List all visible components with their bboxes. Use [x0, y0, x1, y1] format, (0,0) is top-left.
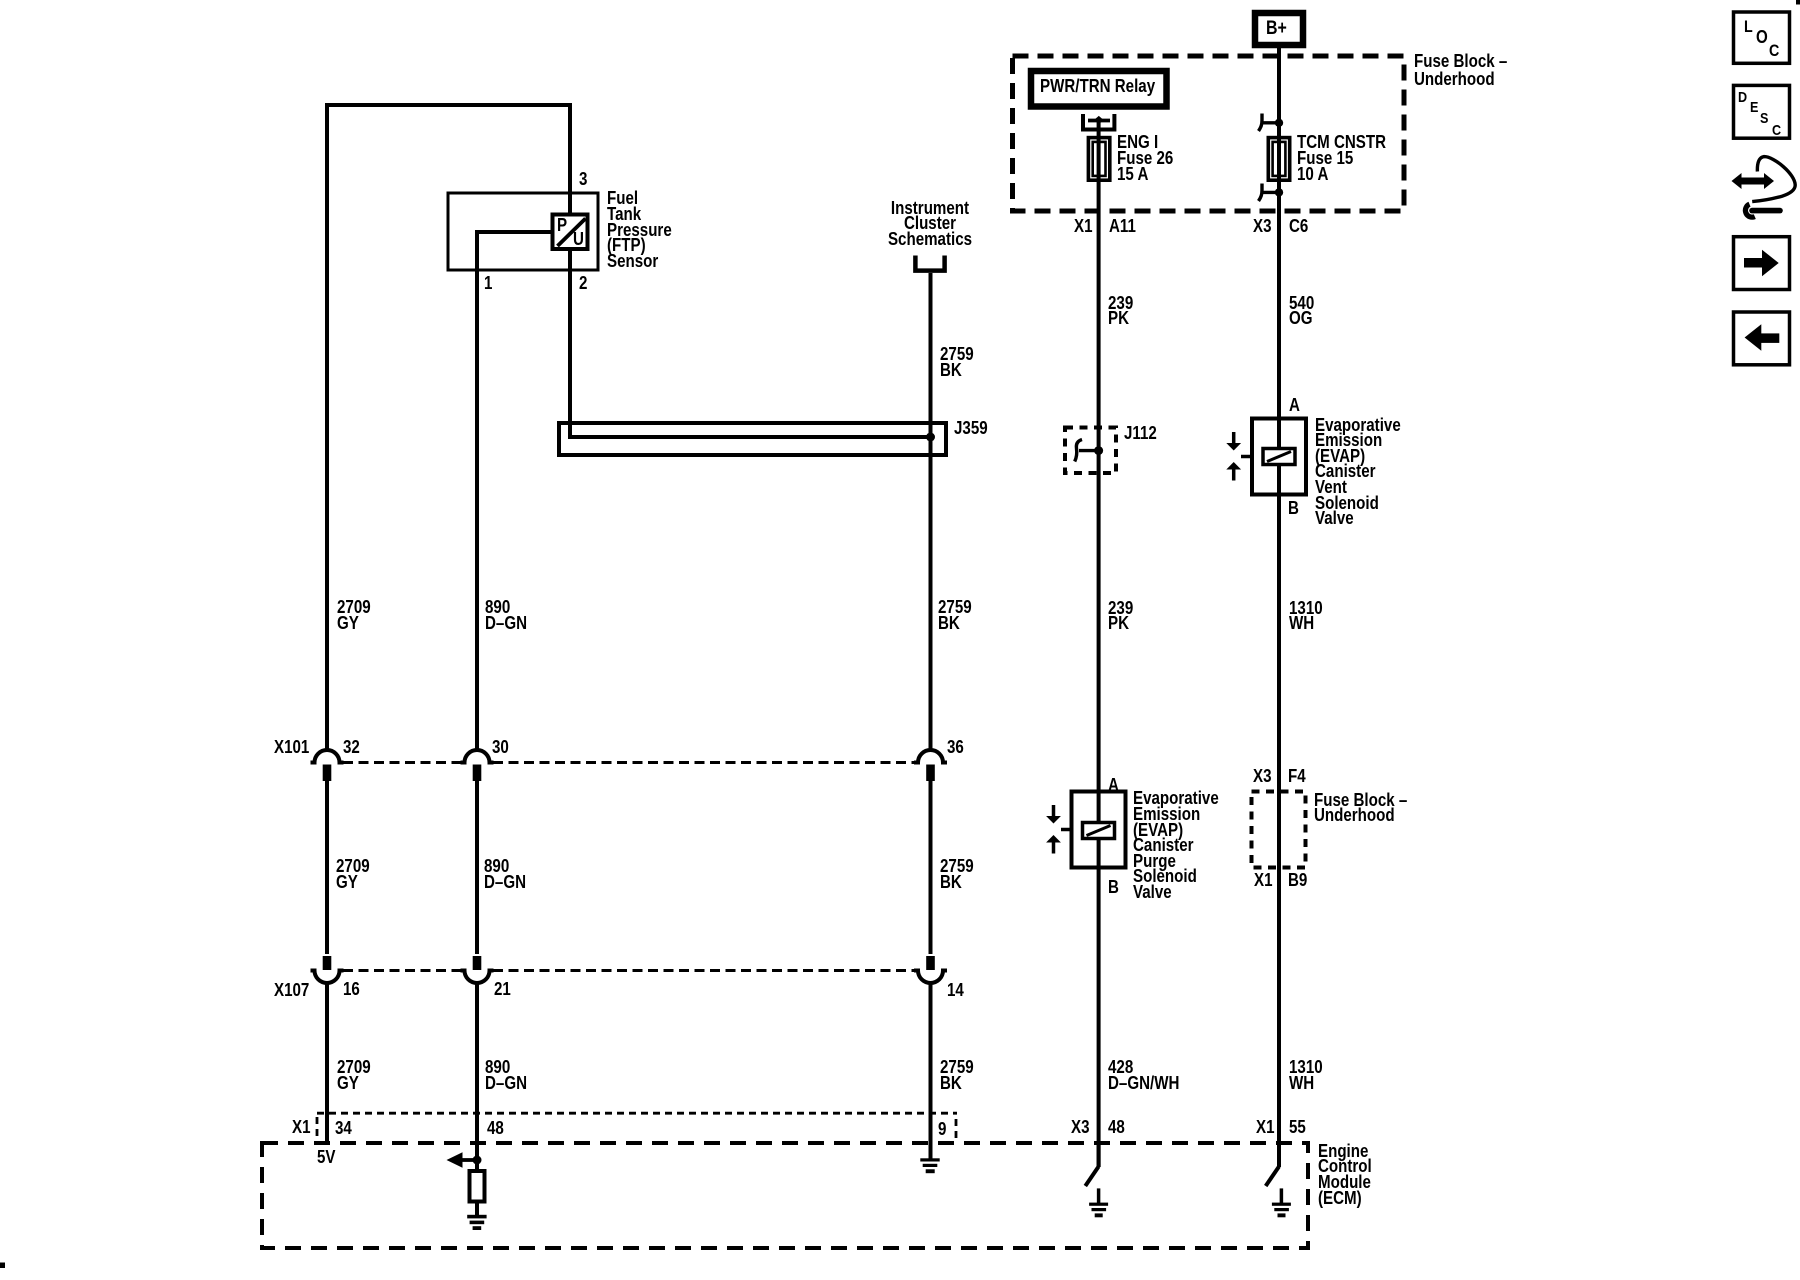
label Fuel Tank Pressure (FTP) Sensor: [607, 191, 672, 269]
wire 2709 GY X107-16 to ECM X1-34: [325, 983, 329, 1143]
connector ECM X1 strip right end: [955, 1119, 958, 1139]
icon forward arrow: [1744, 258, 1763, 268]
icon back arrow: [1760, 333, 1779, 343]
ECM module dashed box: [262, 1143, 1308, 1248]
label J359: [954, 421, 988, 437]
fuse holder clip lower: [1259, 184, 1263, 202]
label pin 16: [343, 982, 360, 998]
label 2759 BK row A: [938, 600, 972, 631]
label J112: [1124, 426, 1157, 442]
label X101: [274, 740, 309, 756]
label X3: [1253, 219, 1272, 235]
label B+: [1266, 21, 1287, 37]
label 890 D-GN row C: [485, 1060, 527, 1091]
icon back arrow box: [1734, 312, 1790, 365]
label pin 14: [947, 983, 964, 999]
X107 terminal 16 pin: [323, 956, 332, 970]
label 890 D-GN row B: [484, 859, 526, 890]
label X3 FB2: [1253, 769, 1272, 785]
label X107: [274, 983, 309, 999]
label A vent: [1289, 398, 1300, 414]
label 890 D-GN row A: [485, 600, 527, 631]
label Instrument Cluster Schematics: [846, 201, 1014, 248]
wire 2709 GY from FTP pin 3 loop down to X101 pin 32: [327, 105, 570, 751]
label pin 48 ECM: [1108, 1120, 1125, 1136]
X101 terminal 30 pin: [473, 765, 482, 782]
wire resistor to ground: [475, 1202, 479, 1216]
PWR/TRN Relay box: [1031, 71, 1167, 107]
X101 terminal 32 pin: [323, 765, 332, 782]
instrument cluster off-page connector: [915, 256, 944, 271]
EVAP purge solenoid coil slash: [1087, 826, 1111, 836]
X101 terminal 36 socket arc: [914, 750, 947, 763]
icon LOC letters O: [1756, 30, 1768, 46]
label X1 ECM: [1256, 1120, 1275, 1136]
EVAP vent valve link: [1241, 455, 1252, 459]
connector ECM X1 strip left end: [316, 1117, 319, 1139]
label Fuse Block Underhood top line1: [1414, 54, 1507, 70]
fuse holder clip upper lead: [1262, 121, 1280, 124]
label TCM CNSTR Fuse 15 10 A: [1297, 135, 1386, 182]
icon DESC letters D: [1738, 89, 1747, 106]
label Fuse Block Underhood lower: [1314, 793, 1407, 824]
label X3 ECM: [1071, 1120, 1090, 1136]
X107 terminal 16 socket arc: [311, 971, 344, 984]
label 428 D-GN/WH: [1108, 1060, 1179, 1091]
FTP P/U diagonal: [558, 219, 586, 247]
icon jump wrench: [1745, 204, 1754, 217]
label B9 FB2: [1288, 873, 1307, 889]
label 239 PK lower: [1108, 601, 1133, 632]
wire ECM pin 48 internal: [475, 1143, 479, 1172]
junction dot J359: [926, 433, 935, 442]
junction dot fuse top: [1275, 119, 1283, 127]
wire inside vent solenoid: [1277, 418, 1281, 495]
connector X107 dashed line: [343, 969, 461, 972]
icon jump car outline: [1752, 157, 1795, 202]
Fuse Block Underhood dashed box: [1013, 56, 1405, 211]
label 2759 BK row B: [940, 859, 974, 890]
wire 540 OG / 1310 WH column: [1277, 44, 1281, 1167]
EVAP vent solenoid coil slash: [1267, 452, 1291, 462]
label ECM X1 strip: [292, 1120, 311, 1136]
label 2759 BK upper: [940, 347, 974, 378]
icon LOC letters L: [1744, 19, 1753, 35]
label Engine Control Module (ECM): [1318, 1144, 1372, 1206]
label 1310 WH lower: [1289, 1060, 1323, 1091]
wire 890 D-GN X101-30 to X107-21: [475, 781, 479, 954]
ECM signal arrow line: [462, 1158, 477, 1162]
J112 hook: [1075, 440, 1082, 462]
junction dot ECM pin 48: [473, 1156, 482, 1165]
label pin 36: [947, 740, 964, 756]
page corner mark bottom left: [0, 1263, 5, 1269]
EVAP purge solenoid coil: [1083, 823, 1115, 839]
label 5V: [317, 1150, 336, 1166]
label pin 30: [492, 740, 509, 756]
label ENG I Fuse 26 15 A: [1117, 135, 1173, 182]
label 2709 GY row C: [337, 1060, 371, 1091]
B+ battery feed box: [1255, 13, 1303, 45]
label A purge: [1108, 778, 1119, 794]
junction dot J112: [1094, 446, 1103, 455]
EVAP purge valve link: [1061, 828, 1072, 832]
label pin 21: [494, 982, 511, 998]
label 540 OG: [1289, 296, 1314, 327]
X107 terminal 14 socket arc: [914, 971, 947, 984]
EVAP purge valve symbol: [1052, 805, 1056, 817]
label 239 PK upper: [1108, 296, 1133, 327]
icon LOC box: [1734, 12, 1790, 63]
label EVAP Canister Vent Solenoid Valve: [1315, 418, 1401, 527]
label Fuse Block Underhood top line2: [1414, 72, 1495, 88]
fuse ENG I Fuse 26 inner: [1093, 142, 1106, 176]
icon DESC letters S: [1760, 110, 1768, 127]
connector ECM X1 strip line: [317, 1112, 957, 1115]
J359 splice box: [559, 423, 946, 455]
J112 lead: [1079, 449, 1099, 452]
label 1310 WH upper: [1289, 601, 1323, 632]
wire inside purge solenoid: [1097, 791, 1101, 868]
ground ECM pin 9: [920, 1158, 939, 1161]
label 2709 GY row B: [336, 859, 370, 890]
relay contact bar: [1088, 119, 1110, 123]
ground stub ECM X3-48: [1097, 1188, 1101, 1203]
junction dot fuse bottom: [1275, 188, 1283, 196]
label pin 1: [484, 276, 492, 292]
wire 890 D-GN from FTP pin 1 down to X101 pin 30: [477, 232, 552, 751]
fuse TCM CNSTR Fuse 15 inner: [1273, 142, 1286, 176]
ground stub ECM X1-55: [1280, 1188, 1284, 1203]
ground ECM sensor return: [467, 1215, 486, 1219]
label pin 9: [938, 1122, 946, 1138]
wire 239 PK / 428 D-GN/WH column: [1097, 121, 1101, 1168]
X107 terminal 21 pin: [473, 956, 482, 970]
label A11: [1109, 219, 1136, 235]
fuse TCM CNSTR Fuse 15 outer: [1268, 138, 1289, 181]
X101 terminal 30 socket arc: [461, 750, 494, 763]
label C6: [1289, 219, 1308, 235]
relay contact arrow: [1094, 116, 1104, 124]
EVAP vent solenoid box: [1252, 419, 1306, 495]
wire 2709 GY X101-32 to X107-16: [325, 781, 329, 954]
icon DESC letters E: [1750, 99, 1758, 116]
label pin 32: [343, 740, 360, 756]
label B vent: [1288, 501, 1299, 517]
fuse holder clip upper: [1259, 114, 1263, 132]
X107 terminal 14 pin: [926, 956, 935, 970]
label pin 3: [579, 172, 587, 188]
fuse holder clip lower lead: [1262, 191, 1280, 194]
icon jump double arrow: [1740, 178, 1766, 185]
label pin 34: [335, 1121, 352, 1137]
fuse ENG I Fuse 26 outer: [1088, 138, 1109, 181]
label B purge: [1108, 880, 1119, 896]
ECM driver switch pin X1-55: [1277, 1143, 1281, 1167]
EVAP vent valve symbol: [1232, 432, 1236, 444]
EVAP purge solenoid box: [1072, 792, 1126, 868]
icon DESC box: [1734, 85, 1790, 138]
label 2709 GY row A: [337, 600, 371, 631]
label pin 55 ECM: [1289, 1120, 1306, 1136]
label 2759 BK row C: [940, 1060, 974, 1091]
wire J359 splice bus: [570, 435, 931, 439]
X101 terminal 32 socket arc: [311, 750, 344, 763]
wire 2759 BK instrument cluster down through J359 to X101 pin 36: [929, 273, 933, 751]
ECM driver switch pin X3-48: [1097, 1143, 1101, 1167]
icon DESC letters C2: [1772, 122, 1781, 139]
relay contact bracket: [1083, 114, 1114, 130]
FTP P/U transducer symbol: [553, 215, 588, 250]
wire 2759 BK X107-14 to ECM X1-9: [929, 983, 933, 1143]
page corner mark top right: [1796, 0, 1800, 5]
icon forward arrow box: [1734, 237, 1790, 290]
ground ECM X1-55: [1272, 1203, 1291, 1206]
label X1 FB2: [1254, 873, 1273, 889]
ground ECM X3-48: [1089, 1203, 1108, 1206]
label EVAP Canister Purge Solenoid Valve: [1133, 791, 1219, 900]
X101 terminal 36 pin: [926, 765, 935, 782]
wire 2759 BK FTP pin 2 down into J359 splice: [570, 193, 926, 437]
ECM signal arrowhead: [447, 1152, 463, 1168]
label PWR/TRN Relay: [1040, 79, 1155, 95]
X107 terminal 21 socket arc: [461, 971, 494, 984]
wire ECM pin 9 internal: [929, 1143, 933, 1159]
label F4 FB2: [1288, 769, 1306, 785]
label P: [557, 218, 567, 234]
EVAP vent solenoid coil: [1263, 449, 1295, 465]
Fuse Block Underhood lower dashed box: [1252, 792, 1306, 868]
connector X101 dashed line: [343, 761, 461, 764]
label X1: [1074, 219, 1093, 235]
label U: [573, 232, 584, 248]
label pin 48: [487, 1121, 504, 1137]
FTP sensor box: [448, 193, 598, 270]
resistor R ECM internal: [470, 1171, 485, 1202]
icon LOC letters C: [1769, 43, 1779, 59]
wire 2759 BK X101-36 to X107-14: [929, 781, 933, 954]
label pin 2: [579, 276, 587, 292]
J112 splice dashed box: [1065, 428, 1116, 474]
wire 890 D-GN X107-21 to ECM X1-48: [475, 983, 479, 1143]
